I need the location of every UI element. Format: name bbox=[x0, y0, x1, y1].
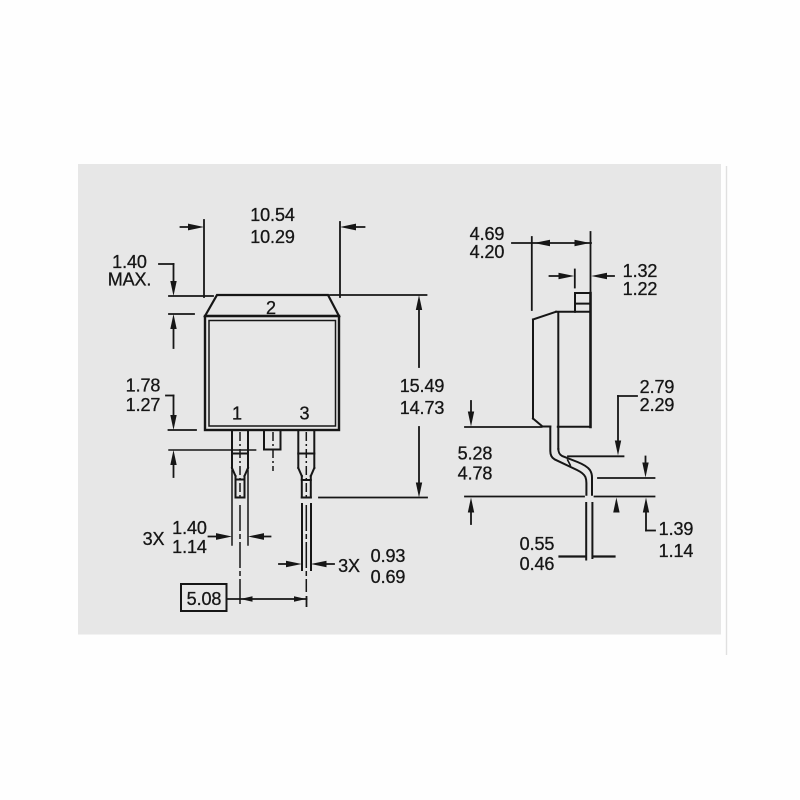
svg-text:1.78: 1.78 bbox=[126, 376, 161, 396]
svg-text:15.49: 15.49 bbox=[400, 376, 445, 396]
svg-text:14.73: 14.73 bbox=[400, 398, 445, 418]
svg-text:0.93: 0.93 bbox=[371, 546, 406, 566]
svg-text:4.69: 4.69 bbox=[470, 224, 505, 244]
svg-text:1.27: 1.27 bbox=[126, 395, 161, 415]
svg-text:4.20: 4.20 bbox=[470, 242, 505, 262]
svg-text:3: 3 bbox=[300, 404, 310, 424]
svg-text:0.69: 0.69 bbox=[371, 567, 406, 587]
svg-text:4.78: 4.78 bbox=[458, 464, 493, 484]
svg-text:2: 2 bbox=[266, 298, 276, 318]
svg-text:10.54: 10.54 bbox=[250, 205, 295, 225]
svg-text:3X: 3X bbox=[143, 529, 165, 549]
svg-text:3X: 3X bbox=[338, 556, 360, 576]
svg-text:2.79: 2.79 bbox=[640, 377, 675, 397]
svg-text:1.39: 1.39 bbox=[659, 519, 694, 539]
svg-text:1.40: 1.40 bbox=[172, 518, 207, 538]
svg-text:1.14: 1.14 bbox=[659, 541, 694, 561]
svg-text:5.08: 5.08 bbox=[187, 589, 222, 609]
svg-text:1: 1 bbox=[232, 404, 242, 424]
svg-text:1.14: 1.14 bbox=[172, 537, 207, 557]
svg-text:1.22: 1.22 bbox=[623, 279, 658, 299]
svg-text:2.29: 2.29 bbox=[640, 395, 675, 415]
svg-text:10.29: 10.29 bbox=[250, 227, 295, 247]
svg-text:0.55: 0.55 bbox=[520, 534, 555, 554]
svg-text:MAX.: MAX. bbox=[108, 270, 152, 290]
svg-text:5.28: 5.28 bbox=[458, 444, 493, 464]
svg-text:1.32: 1.32 bbox=[623, 261, 658, 281]
svg-text:0.46: 0.46 bbox=[520, 554, 555, 574]
